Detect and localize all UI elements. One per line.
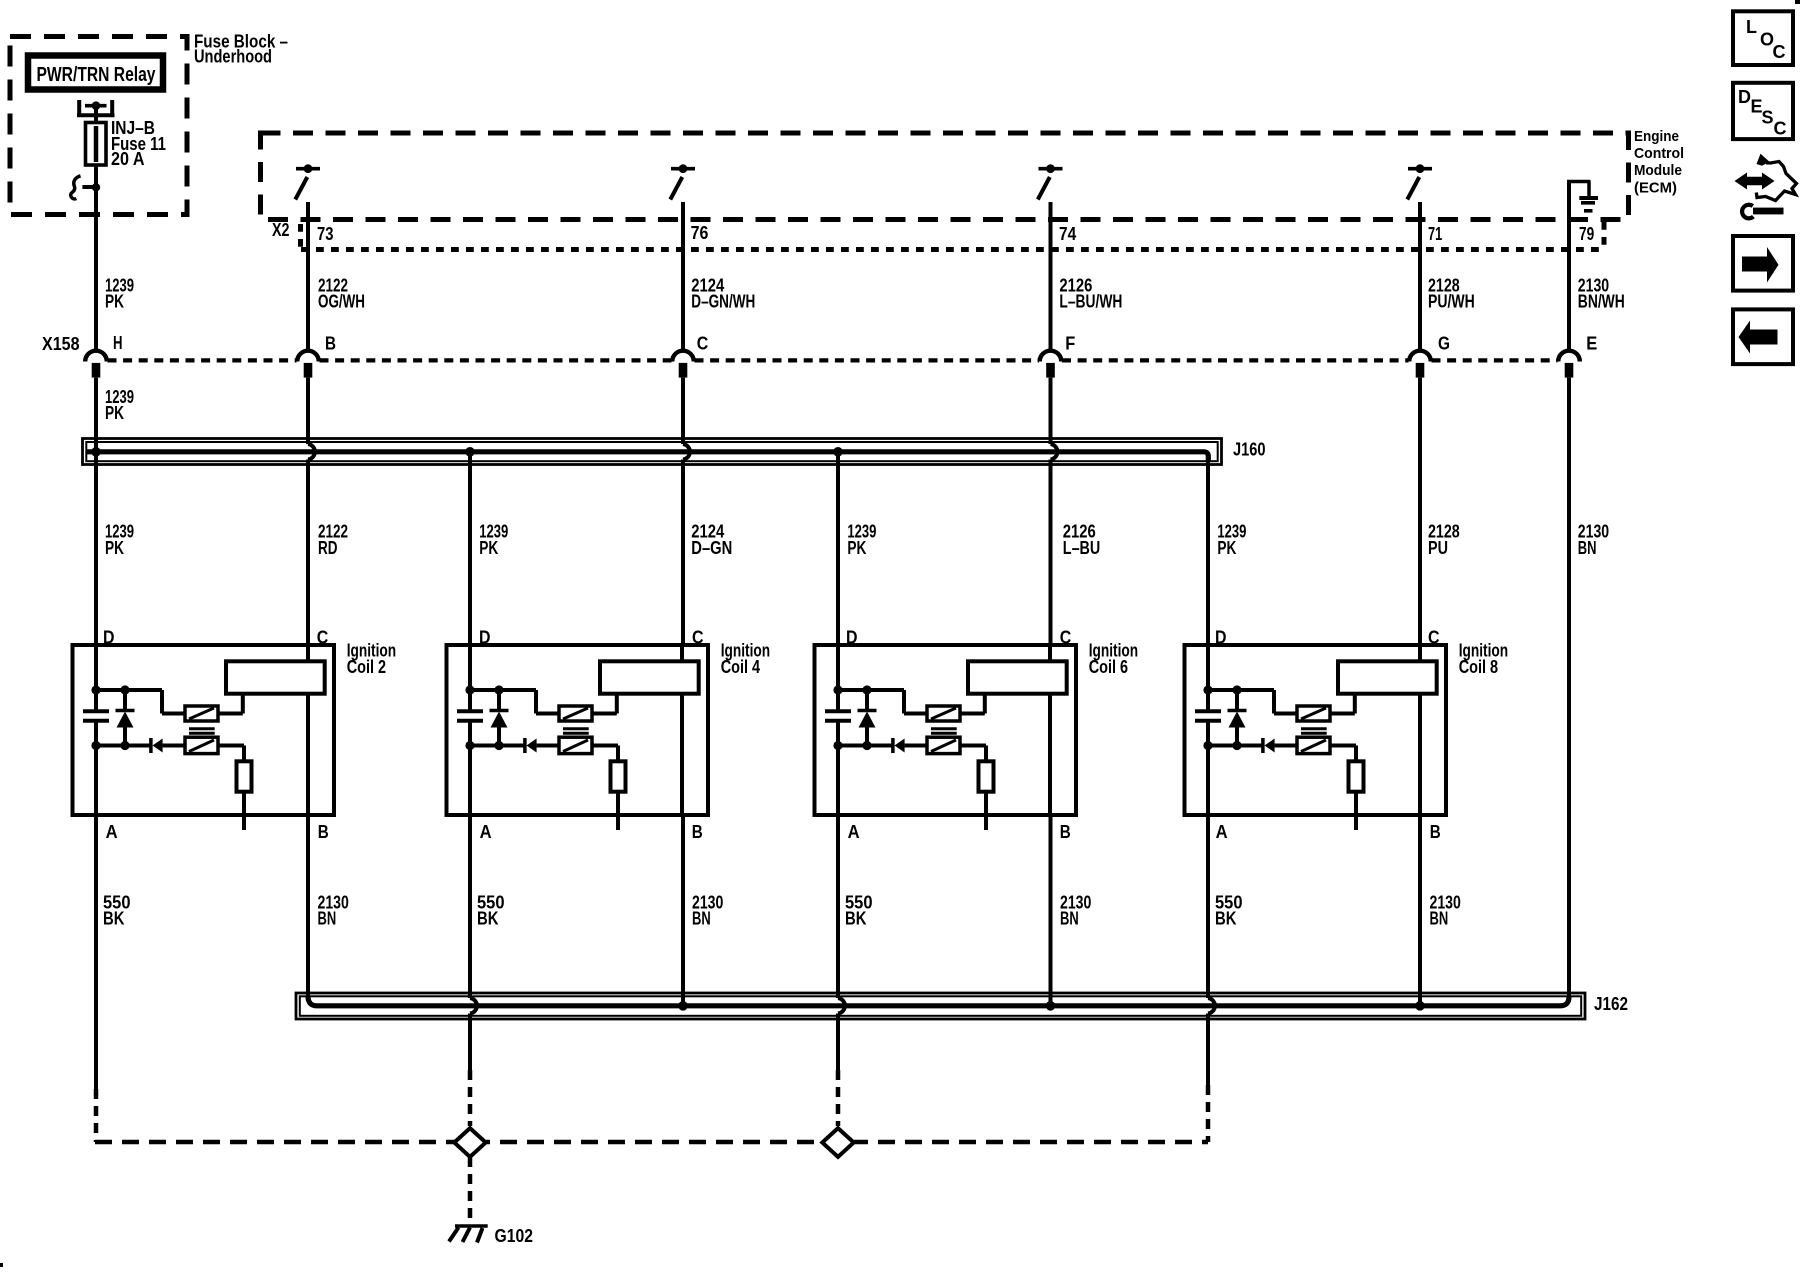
- svg-text:F: F: [1065, 334, 1075, 354]
- svg-text:H: H: [113, 333, 123, 353]
- wire labels: circuit 1239 PK and coil control circuits (ECM side): [105, 276, 134, 312]
- svg-text:Engine: Engine: [1634, 128, 1679, 145]
- wire 2124: ECM 76 to X158 C: [681, 202, 685, 350]
- ECM dashed enclosure: [261, 133, 1629, 220]
- splice S1: [454, 1128, 485, 1157]
- ECM internal ground symbol: [1567, 182, 1598, 211]
- svg-text:A: A: [848, 822, 860, 842]
- svg-text:Control: Control: [1634, 145, 1684, 162]
- connector X158 (dotted line with pin cavities): [108, 358, 1558, 362]
- splice pack J162 (bus): [296, 993, 1585, 1019]
- svg-text:Underhood: Underhood: [194, 47, 272, 67]
- svg-text:PU/WH: PU/WH: [1428, 292, 1475, 312]
- coil name labels: [347, 640, 396, 677]
- ignition coil 8: [1185, 643, 1447, 830]
- svg-text:B: B: [1060, 822, 1071, 842]
- ECM low-side driver coil 4 control: [670, 169, 695, 200]
- svg-text:X158: X158: [42, 334, 80, 354]
- ECM low-side driver coil 6 control: [1038, 169, 1063, 200]
- wire 2130 BN/WH: X158 E to J162 right end: [1567, 378, 1571, 997]
- svg-text:PK: PK: [479, 538, 498, 558]
- wire 2130 BN: coil8 B to J162 dot: [1418, 815, 1422, 1006]
- splice pack J160 (bus): [83, 439, 1222, 465]
- ground G102 symbol: [449, 1226, 488, 1243]
- svg-text:79: 79: [1579, 224, 1594, 244]
- svg-text:G: G: [1438, 334, 1450, 354]
- svg-text:A: A: [106, 822, 118, 842]
- wire 550 BK: coil6 A through J162 to splice: [836, 815, 840, 998]
- svg-text:BK: BK: [845, 909, 867, 929]
- svg-text:Coil 8: Coil 8: [1459, 657, 1498, 677]
- svg-text:BK: BK: [1215, 909, 1237, 929]
- svg-text:D–GN/WH: D–GN/WH: [691, 292, 755, 312]
- svg-text:PK: PK: [105, 292, 124, 312]
- svg-text:B: B: [318, 822, 329, 842]
- svg-text:S: S: [1762, 108, 1774, 128]
- swap/arrow-wrench icon: [1735, 173, 1775, 190]
- wire 1239 PK: X158 H to J160 to coil2 D: [94, 378, 98, 646]
- svg-text:Coil 2: Coil 2: [347, 657, 386, 677]
- next-page arrow icon: [1733, 236, 1793, 291]
- X158 pin cavity arcs and terminals: [85, 351, 107, 362]
- svg-text:J160: J160: [1233, 440, 1266, 460]
- svg-text:PK: PK: [105, 403, 124, 423]
- svg-text:Coil 6: Coil 6: [1089, 657, 1128, 677]
- wire 2124 D-GN: X158 C to coil4 C (hop over J160): [681, 378, 685, 444]
- svg-text:BN: BN: [318, 909, 337, 929]
- dashed ground rail to G102: [95, 1140, 1208, 1145]
- splice S2: [822, 1128, 853, 1157]
- svg-text:J162: J162: [1594, 994, 1628, 1014]
- coil pin letters A and B: [106, 822, 1441, 842]
- svg-text:A: A: [1216, 822, 1228, 842]
- svg-text:BN: BN: [1060, 909, 1079, 929]
- wire 550 BK: coil2 A to ground rail: [94, 815, 98, 1089]
- J160 junction dots: [91, 447, 101, 457]
- svg-text:BN: BN: [1578, 538, 1597, 558]
- wire 2130 BN: coil2 B to J162: [306, 815, 310, 998]
- wire 2122 RD: X158 B to coil2 C (hop over J160): [306, 378, 310, 444]
- svg-text:76: 76: [691, 223, 709, 243]
- wire 2128 PU: X158 G to coil8 C: [1418, 378, 1422, 646]
- svg-text:B: B: [692, 822, 703, 842]
- wire 2126: ECM 74 to X158 F: [1049, 202, 1053, 350]
- svg-text:E: E: [1586, 334, 1597, 354]
- wire 550 BK: coil4 A through J162 to splice: [468, 815, 472, 998]
- wire relay to fuse: [94, 106, 98, 123]
- svg-text:(ECM): (ECM): [1634, 180, 1677, 197]
- wire 1239 PK: fuse to X158 H: [94, 165, 98, 350]
- wire labels: coil feed and control circuits: [105, 522, 134, 559]
- wire 2130 BN: coil6 B to J162 dot: [1049, 815, 1053, 1006]
- wire labels: 550 BK grounds and 2130 BN low reference: [103, 893, 131, 929]
- wire 1239 PK: J160 corner to coil8 D: [1206, 455, 1210, 646]
- connector X2 (ECM harness connector, dotted line): [301, 247, 1604, 252]
- wire 2128: ECM 71 to X158 G: [1418, 202, 1422, 350]
- prev-page arrow icon: [1733, 309, 1793, 364]
- X158 pin letters: [113, 333, 1597, 354]
- svg-text:PK: PK: [1217, 538, 1236, 558]
- svg-text:BN/WH: BN/WH: [1578, 292, 1625, 312]
- svg-text:PU: PU: [1428, 538, 1448, 558]
- wire 1239 PK: J160 to coil4 D: [468, 452, 472, 646]
- svg-text:RD: RD: [318, 538, 338, 558]
- svg-text:L: L: [1746, 17, 1757, 37]
- svg-text:74: 74: [1059, 224, 1076, 244]
- fuse block label: [194, 32, 288, 67]
- svg-text:C: C: [697, 334, 709, 354]
- svg-text:OG/WH: OG/WH: [318, 292, 365, 312]
- wire label 1239 PK below X158 H: [105, 387, 134, 423]
- LOC icon: [1733, 11, 1793, 65]
- ignition coil 2: [73, 643, 335, 830]
- svg-text:BK: BK: [477, 909, 499, 929]
- svg-text:D: D: [1738, 87, 1751, 107]
- ECM low-side driver coil 2 control: [295, 169, 320, 200]
- svg-text:B: B: [325, 334, 336, 354]
- DESC icon: [1733, 83, 1793, 139]
- ignition coil 4: [447, 643, 709, 830]
- corner marks: [1795, 0, 1800, 4]
- svg-text:G102: G102: [495, 1226, 534, 1246]
- svg-text:BN: BN: [692, 909, 711, 929]
- wire 550 BK: coil8 A through J162 to ground rail: [1206, 815, 1210, 998]
- svg-text:Module: Module: [1634, 162, 1682, 179]
- wire 1239 PK: J160 to coil6 D: [836, 452, 840, 646]
- wire 2126 L-BU: X158 F to coil6 C (hop over J160): [1049, 378, 1053, 444]
- svg-text:D–GN: D–GN: [691, 538, 732, 558]
- svg-text:PWR/TRN Relay: PWR/TRN Relay: [37, 64, 157, 86]
- svg-text:X2: X2: [272, 220, 290, 240]
- X2 pin numbers: [317, 223, 1594, 244]
- relay K: PWR/TRN Relay box: [28, 56, 163, 90]
- fuse label: [111, 118, 166, 169]
- svg-text:BN: BN: [1430, 909, 1449, 929]
- ignition coil 6: [815, 643, 1077, 830]
- svg-text:Coil 4: Coil 4: [721, 657, 760, 677]
- coil connector pin letters D and C: [103, 628, 1440, 648]
- svg-text:C: C: [1773, 42, 1786, 62]
- wire 2130 BN: coil4 B to J162 dot: [681, 815, 685, 1006]
- switch hook lever: [71, 176, 81, 199]
- svg-text:20 A: 20 A: [111, 149, 145, 169]
- svg-text:L–BU: L–BU: [1063, 538, 1101, 558]
- svg-text:PK: PK: [847, 538, 866, 558]
- svg-text:L–BU/WH: L–BU/WH: [1059, 292, 1122, 312]
- svg-text:B: B: [1430, 822, 1441, 842]
- ECM low-side driver coil 8 control: [1407, 169, 1432, 200]
- wire 2130: ECM ground to X158 E: [1567, 180, 1571, 350]
- dashed wire splice to G102: [468, 1157, 473, 1224]
- fuse block - underhood (dashed enclosure): [10, 37, 187, 215]
- ECM label: [1634, 128, 1684, 197]
- svg-text:C: C: [1774, 119, 1787, 139]
- wire 2122: ECM 73 to X158 B: [306, 202, 310, 350]
- relay contact terminal symbol: [77, 100, 115, 117]
- J162 junction dots: [678, 1001, 688, 1011]
- svg-text:71: 71: [1428, 224, 1442, 244]
- svg-text:A: A: [480, 822, 492, 842]
- svg-text:73: 73: [317, 224, 334, 244]
- svg-text:BK: BK: [103, 909, 125, 929]
- fuse INJ-B Fuse 11 20A: [94, 123, 98, 190]
- svg-text:PK: PK: [105, 538, 124, 558]
